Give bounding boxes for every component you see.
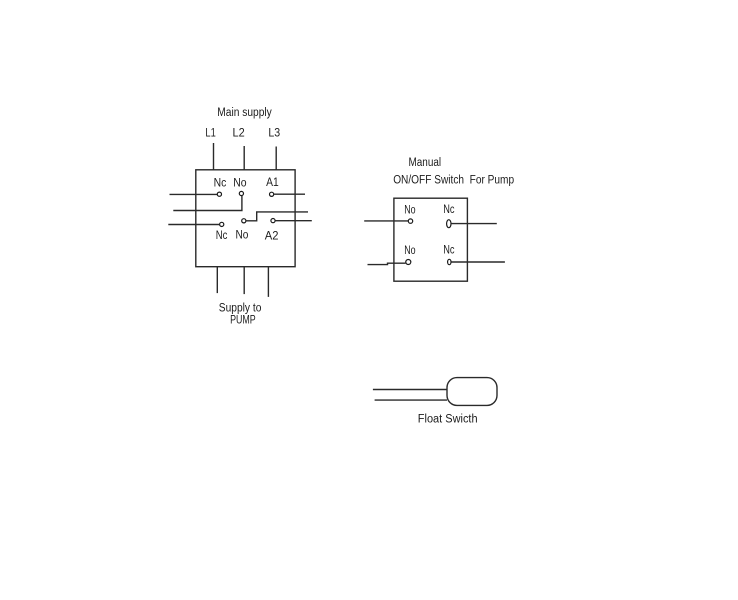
svg-text:Supply to: Supply to	[219, 303, 262, 315]
terminal No top	[239, 191, 243, 195]
wire left to Nc top	[170, 193, 218, 195]
svg-text:Float Swicth: Float Swicth	[418, 414, 478, 426]
wire L1 input	[213, 143, 215, 170]
wire float switch top lead	[373, 389, 447, 391]
wire left to switch No bottom	[368, 263, 406, 264]
svg-text:Nc: Nc	[214, 177, 227, 189]
svg-text:No: No	[404, 245, 415, 257]
wire left to Nc bottom	[168, 224, 219, 226]
svg-text:No: No	[236, 230, 249, 242]
wire pump output 1	[216, 267, 218, 293]
svg-text:A1: A1	[266, 177, 279, 189]
terminal A2	[271, 219, 275, 223]
svg-text:L1: L1	[205, 128, 215, 140]
svg-text:No: No	[233, 177, 246, 189]
float switch body	[447, 378, 497, 406]
terminal switch No bottom	[406, 260, 411, 265]
wire L2 input	[243, 146, 245, 170]
svg-text:Nc: Nc	[216, 230, 228, 242]
contactor K1 box	[196, 170, 295, 267]
svg-text:A2: A2	[265, 230, 279, 242]
svg-text:Nc: Nc	[443, 245, 454, 257]
terminal Nc bottom	[220, 222, 224, 226]
terminal switch Nc top	[447, 220, 451, 228]
svg-text:L3: L3	[268, 128, 280, 140]
svg-text:Manual: Manual	[409, 157, 442, 169]
terminal switch No top	[408, 219, 412, 223]
switch S1 box	[394, 198, 468, 281]
wire left to switch No top	[364, 220, 408, 222]
wire switch Nc bottom to right	[451, 261, 505, 263]
svg-text:L2: L2	[233, 128, 245, 140]
svg-text:Main supply: Main supply	[217, 107, 272, 119]
wire No bottom jog to right	[246, 212, 308, 221]
wire pump output 3	[267, 267, 269, 297]
terminal No bottom	[242, 219, 246, 223]
wire No top down-left jog	[173, 196, 242, 211]
wire A1 to right	[274, 193, 305, 195]
terminal switch Nc bottom	[448, 259, 451, 264]
svg-text:PUMP: PUMP	[230, 315, 256, 327]
terminal Nc top	[217, 192, 221, 196]
terminal A1	[270, 192, 274, 196]
wire A2 to right	[275, 220, 312, 222]
svg-text:Nc: Nc	[443, 204, 454, 216]
wire pump output 2	[243, 267, 245, 294]
wire L3 input	[275, 147, 277, 171]
wire float switch bottom lead	[375, 399, 447, 401]
svg-text:No: No	[404, 205, 415, 217]
svg-text:ON/OFF Switch For Pump: ON/OFF Switch For Pump	[393, 174, 514, 186]
wire switch Nc top to right	[451, 223, 497, 225]
